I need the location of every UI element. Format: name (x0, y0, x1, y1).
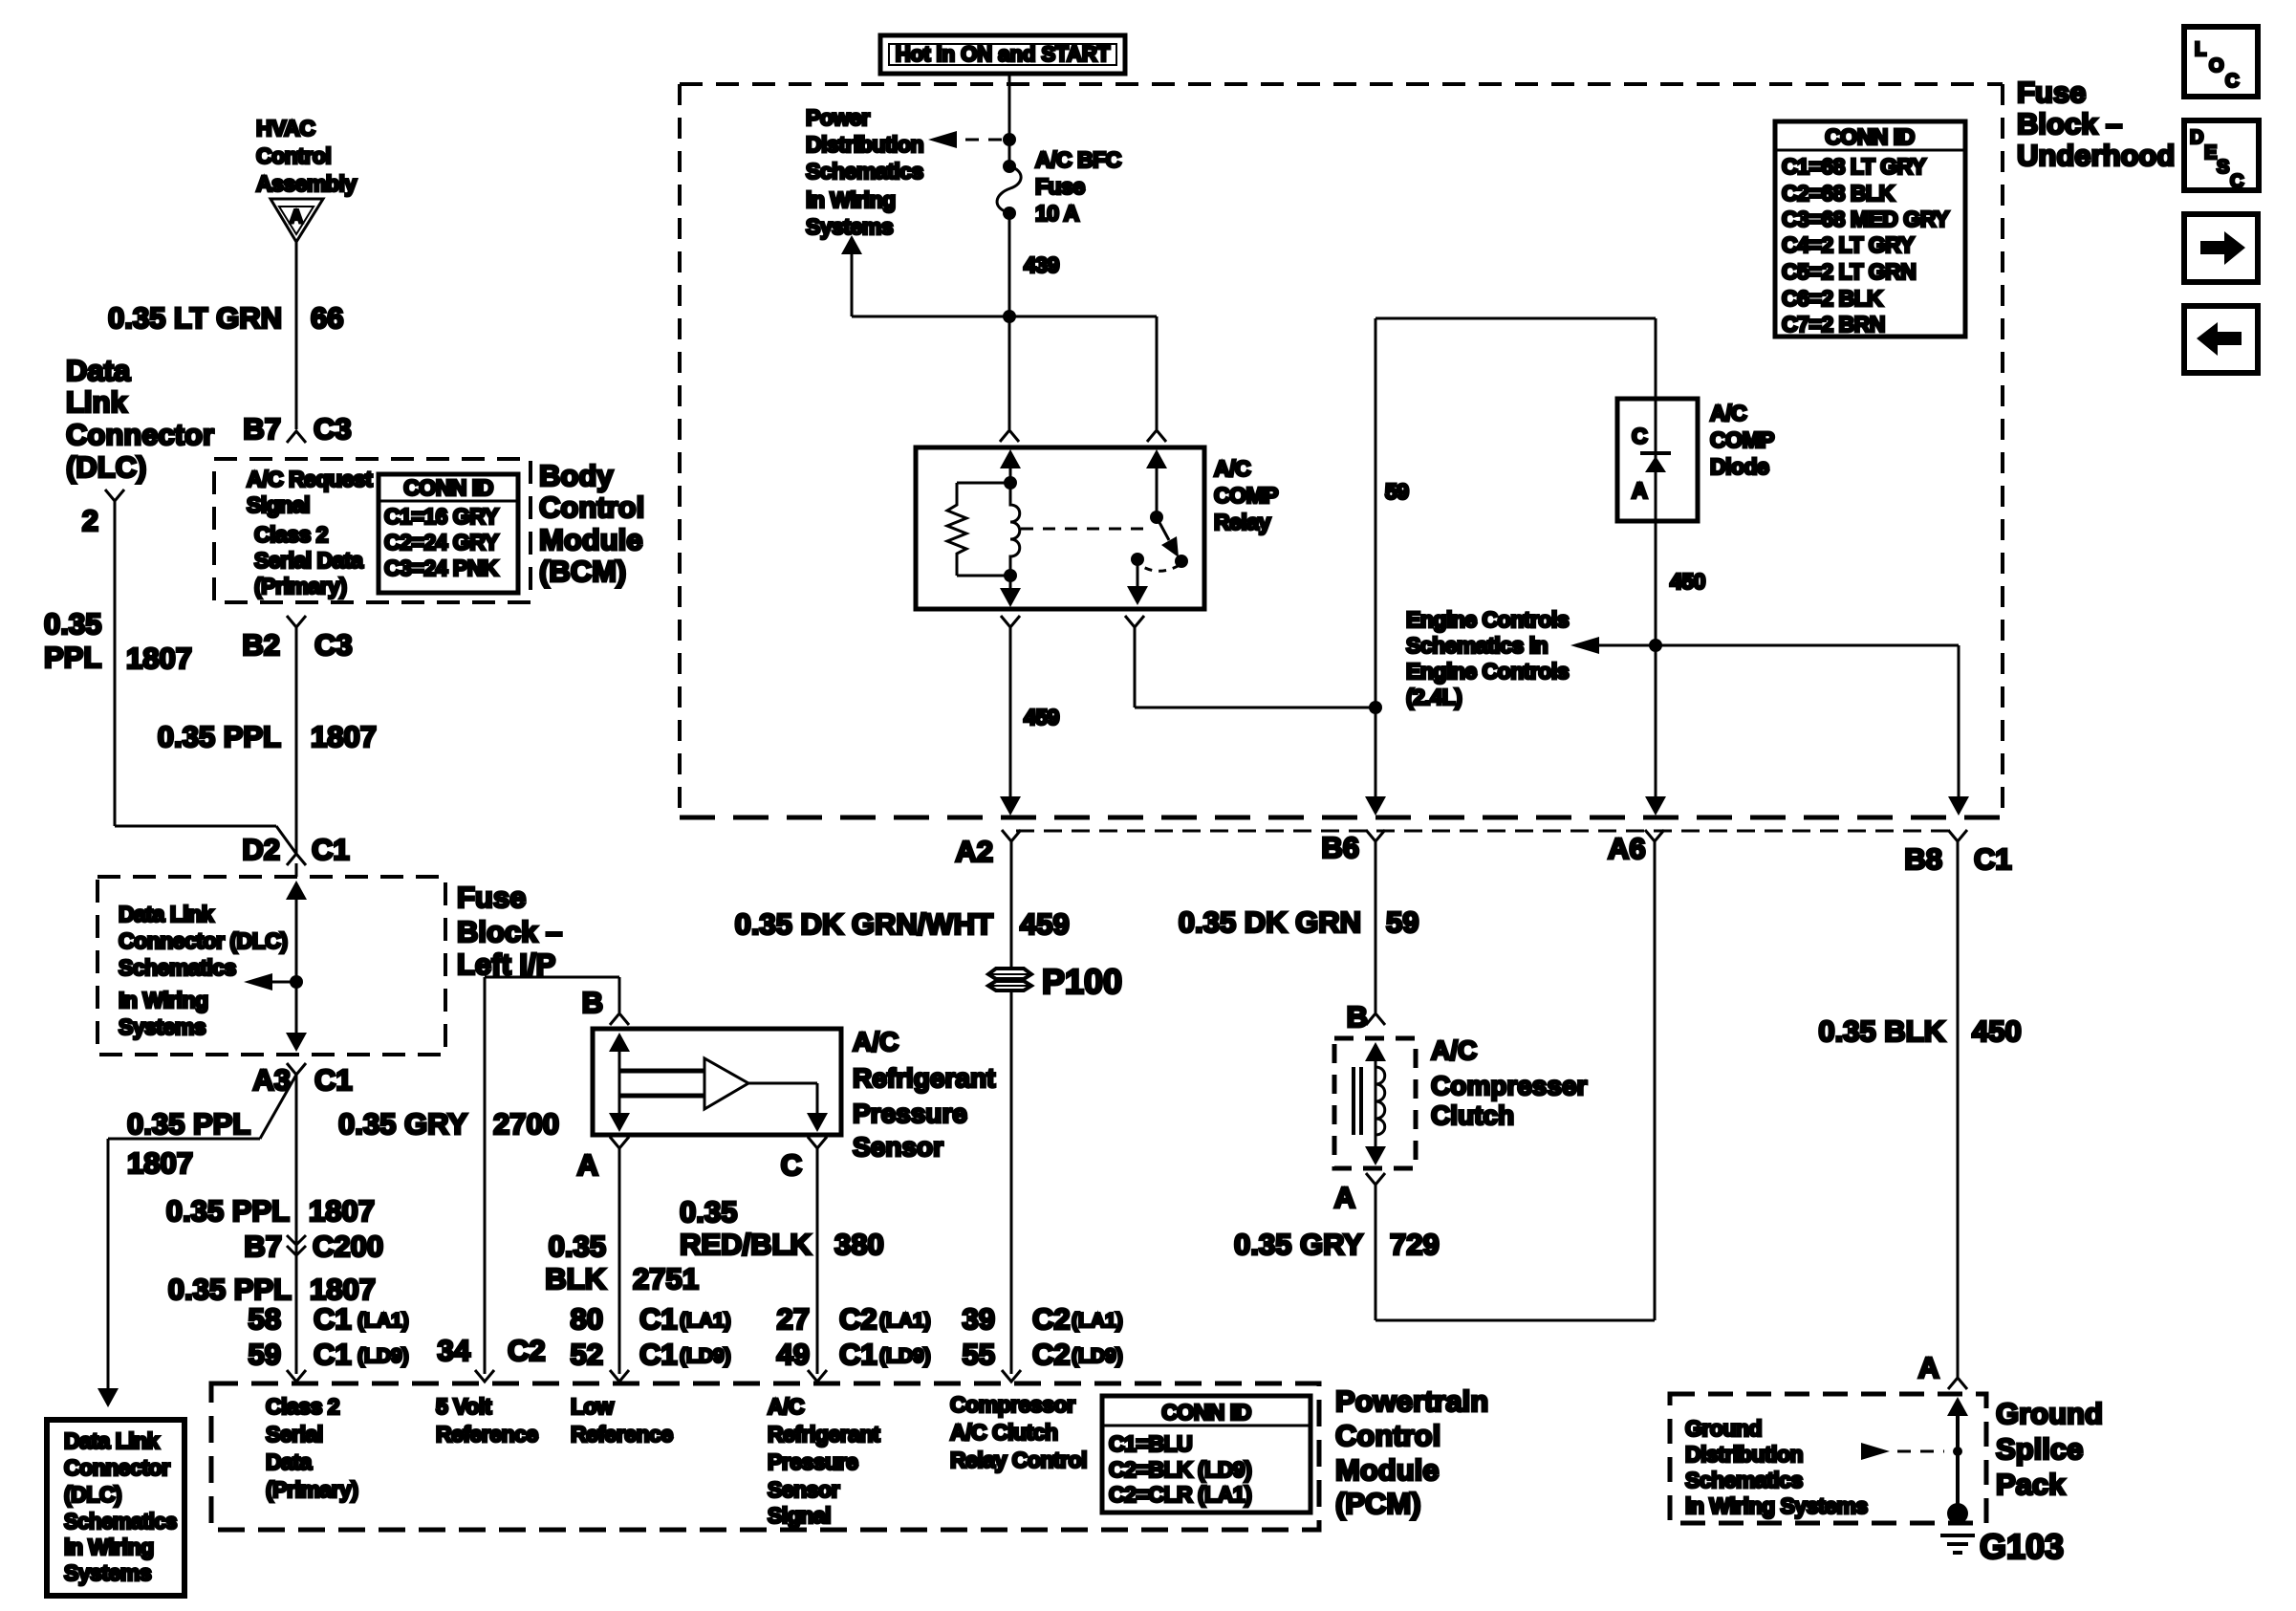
svg-text:0.35 BLK: 0.35 BLK (1818, 1014, 1945, 1048)
svg-text:COMP: COMP (1710, 427, 1774, 452)
svg-text:C7=2 BRN: C7=2 BRN (1782, 312, 1885, 337)
svg-text:B2: B2 (242, 628, 280, 662)
svg-text:C: C (781, 1148, 802, 1182)
CONN ID table (BCM) (379, 474, 518, 593)
svg-text:C2=CLR (LA1): C2=CLR (LA1) (1109, 1482, 1251, 1507)
connector C below sensor (808, 1137, 827, 1148)
svg-text:2751: 2751 (633, 1262, 699, 1295)
svg-text:0.35 PPL: 0.35 PPL (158, 720, 281, 753)
svg-text:1807: 1807 (310, 1273, 376, 1306)
svg-text:1807: 1807 (127, 1146, 193, 1180)
connector B2/C3 (287, 616, 306, 627)
svg-text:C2: C2 (1032, 1302, 1071, 1336)
svg-text:Refrigerant: Refrigerant (853, 1063, 995, 1093)
svg-text:A2: A2 (955, 835, 993, 868)
svg-text:Serial: Serial (266, 1422, 323, 1447)
svg-text:A6: A6 (1608, 832, 1646, 865)
wire inside splice box (1947, 1397, 1968, 1416)
svg-text:450: 450 (1972, 1014, 2022, 1048)
svg-text:Compresser: Compresser (1431, 1071, 1588, 1100)
svg-text:59: 59 (1386, 905, 1419, 939)
svg-text:(DLC): (DLC) (64, 1482, 121, 1507)
svg-text:Class 2: Class 2 (266, 1394, 339, 1419)
svg-text:66: 66 (311, 301, 343, 335)
svg-text:Pressure: Pressure (768, 1449, 857, 1474)
svg-text:Control: Control (539, 490, 644, 524)
svg-text:C6=2 BLK: C6=2 BLK (1782, 286, 1883, 311)
svg-text:Engine Controls: Engine Controls (1406, 607, 1569, 632)
svg-text:Fuse: Fuse (1035, 174, 1085, 199)
wire to B8 (1958, 645, 1960, 809)
arrow inside DLC box (271, 981, 296, 984)
wire 59 (1375, 318, 1377, 809)
svg-text:0.35: 0.35 (680, 1195, 737, 1229)
svg-text:A/C: A/C (768, 1394, 804, 1419)
svg-text:0.35 PPL: 0.35 PPL (127, 1107, 250, 1141)
svg-text:B7: B7 (243, 412, 281, 446)
svg-text:1807: 1807 (311, 720, 377, 753)
svg-text:COMP: COMP (1214, 483, 1278, 508)
svg-text:Hot in ON and START: Hot in ON and START (896, 42, 1111, 66)
fuse F A/C BFC 10A (1003, 160, 1016, 173)
svg-text:A/C BFC: A/C BFC (1035, 147, 1121, 172)
svg-text:C2=68 BLK: C2=68 BLK (1782, 181, 1895, 206)
svg-text:C3=24 PNK: C3=24 PNK (384, 555, 499, 580)
icon LOC box (2184, 27, 2258, 97)
svg-text:E: E (2204, 142, 2217, 163)
svg-text:HVAC: HVAC (256, 116, 314, 141)
svg-text:C1: C1 (314, 1338, 352, 1371)
svg-text:Connector: Connector (64, 1455, 170, 1480)
svg-text:A: A (1918, 1351, 1939, 1384)
sensor U A/C Refrigerant Pressure Sensor (593, 1029, 841, 1135)
connector A3/C1 (287, 1063, 306, 1075)
svg-text:59: 59 (1385, 479, 1409, 504)
svg-text:(Primary): (Primary) (254, 574, 346, 599)
svg-text:55: 55 (963, 1338, 995, 1371)
svg-text:Assembly: Assembly (256, 171, 357, 196)
svg-text:A: A (1334, 1181, 1355, 1214)
boundary thin dashed line (1016, 830, 1948, 833)
svg-text:Schematics: Schematics (64, 1509, 177, 1534)
svg-text:Distribution: Distribution (1685, 1442, 1803, 1467)
relay switch common pin (1146, 449, 1167, 468)
svg-text:in Wiring: in Wiring (806, 187, 896, 212)
svg-text:C200: C200 (313, 1230, 383, 1263)
node DLC schematics solid box (47, 1420, 184, 1596)
clutch L A/C Compresser Clutch dashed box (1334, 1038, 1416, 1168)
svg-text:Compressor: Compressor (950, 1392, 1075, 1417)
relay K A/C COMP Relay box (916, 447, 1204, 609)
svg-text:Relay: Relay (1214, 510, 1271, 534)
svg-text:P100: P100 (1042, 962, 1122, 1001)
svg-text:RED/BLK: RED/BLK (680, 1228, 812, 1261)
svg-text:Ground: Ground (1996, 1397, 2103, 1430)
svg-text:B8: B8 (1904, 842, 1942, 876)
svg-text:B7: B7 (244, 1230, 282, 1263)
svg-text:Sensor: Sensor (853, 1132, 943, 1162)
svg-text:C4=2 LT GRY: C4=2 LT GRY (1782, 232, 1914, 257)
svg-text:Fuse: Fuse (2017, 76, 2086, 109)
svg-text:CONN ID: CONN ID (403, 475, 493, 500)
relay coil-switch link dashed (1021, 528, 1147, 531)
svg-text:Schematics: Schematics (119, 955, 236, 980)
icon DESC box (2184, 120, 2259, 190)
svg-text:Data: Data (266, 1449, 313, 1474)
Fuse Block - Underhood dashed box (680, 82, 2003, 86)
svg-text:B: B (1347, 1000, 1368, 1034)
diode D A/C COMP Diode (1617, 399, 1698, 521)
svg-text:0.35 LT GRN: 0.35 LT GRN (108, 301, 282, 335)
svg-text:439: 439 (1024, 252, 1059, 277)
svg-text:34: 34 (438, 1334, 471, 1367)
svg-text:Module: Module (539, 523, 643, 556)
op-amp triangle (704, 1058, 748, 1109)
svg-text:A3: A3 (252, 1063, 291, 1097)
svg-text:PPL: PPL (44, 641, 101, 674)
svg-text:C2: C2 (1032, 1338, 1071, 1371)
svg-text:Power: Power (806, 105, 870, 130)
svg-text:Systems: Systems (64, 1560, 151, 1585)
relay pin outputs (1001, 616, 1020, 627)
wire 450 (1655, 521, 1657, 809)
resistor in relay (957, 482, 1010, 485)
svg-text:Data Link: Data Link (119, 902, 214, 926)
wire DLC pin 2 (114, 501, 117, 826)
svg-text:Clutch: Clutch (1431, 1100, 1514, 1130)
svg-text:49: 49 (777, 1338, 810, 1371)
spine continues (295, 1075, 298, 1374)
svg-text:Body: Body (539, 459, 614, 492)
connector B6 (1366, 830, 1385, 841)
svg-text:39: 39 (963, 1302, 995, 1336)
svg-text:380: 380 (834, 1228, 884, 1261)
svg-text:Schematics: Schematics (806, 159, 923, 184)
wire 1807 spine (295, 627, 298, 854)
svg-text:G103: G103 (1980, 1527, 2064, 1566)
svg-text:Control: Control (256, 143, 331, 168)
svg-text:Relay Control: Relay Control (950, 1448, 1087, 1472)
svg-text:Class 2: Class 2 (254, 522, 328, 547)
svg-text:Fuse: Fuse (457, 881, 526, 914)
svg-text:Systems: Systems (806, 214, 893, 239)
svg-text:Data: Data (66, 354, 131, 387)
svg-text:L: L (2195, 39, 2206, 60)
svg-text:D: D (2190, 127, 2203, 148)
CONN ID table (PCM) (1102, 1396, 1310, 1513)
svg-text:729: 729 (1390, 1228, 1440, 1261)
power distribution dashed arrow (965, 139, 1002, 142)
svg-text:A/C Clutch: A/C Clutch (950, 1420, 1058, 1445)
svg-text:Ground: Ground (1685, 1416, 1762, 1441)
svg-text:A: A (290, 207, 303, 228)
wire 459 inside box (1009, 627, 1012, 809)
ground G103 (1940, 1534, 1975, 1537)
svg-text:Splice: Splice (1996, 1432, 2083, 1466)
svg-text:0.35 GRY: 0.35 GRY (1234, 1228, 1363, 1261)
module BCM dashed box (214, 459, 531, 602)
svg-text:C1: C1 (314, 1063, 353, 1097)
svg-text:(LD9): (LD9) (1072, 1345, 1123, 1367)
engine controls arrow wire (1579, 644, 1959, 647)
svg-text:459: 459 (1024, 705, 1059, 729)
svg-text:(Primary): (Primary) (266, 1477, 357, 1502)
svg-text:C1=16 GRY: C1=16 GRY (384, 504, 498, 529)
clutch coil (1375, 1067, 1385, 1135)
svg-text:Block –: Block – (2017, 107, 2122, 141)
svg-text:Schematics in: Schematics in (1406, 633, 1548, 658)
wire 66 (295, 242, 298, 429)
svg-text:0.35: 0.35 (44, 607, 101, 641)
svg-text:O: O (2209, 55, 2224, 76)
svg-text:Pack: Pack (1996, 1468, 2066, 1501)
CONN ID table (Fuse Block Underhood) (1775, 121, 1965, 337)
svg-text:Signal: Signal (768, 1503, 831, 1528)
svg-text:10 A: 10 A (1035, 201, 1079, 226)
svg-text:1807: 1807 (126, 642, 192, 675)
svg-text:Pressure: Pressure (853, 1099, 967, 1128)
svg-text:Underhood: Underhood (2017, 139, 2175, 172)
svg-text:A: A (577, 1148, 598, 1182)
wire top link (1375, 317, 1656, 320)
svg-text:C2=BLK (LD9): C2=BLK (LD9) (1109, 1457, 1251, 1482)
svg-text:Reference: Reference (436, 1422, 538, 1447)
svg-text:0.35 DK GRN/WHT: 0.35 DK GRN/WHT (735, 907, 993, 941)
connector A below clutch (1366, 1173, 1385, 1185)
svg-text:C1: C1 (639, 1338, 678, 1371)
relay coil (1010, 483, 1020, 576)
svg-text:C1: C1 (312, 833, 350, 866)
ground distribution dashed arrow (1861, 1443, 1890, 1460)
svg-text:80: 80 (571, 1302, 603, 1336)
svg-text:A/C: A/C (853, 1027, 899, 1056)
svg-text:459: 459 (1020, 907, 1070, 941)
svg-text:52: 52 (571, 1338, 603, 1371)
svg-text:Serial Data: Serial Data (254, 548, 363, 573)
svg-text:C1: C1 (314, 1302, 352, 1336)
spine through DLC box (286, 881, 307, 900)
svg-text:D2: D2 (242, 833, 280, 866)
svg-text:C1: C1 (839, 1338, 877, 1371)
svg-text:5 Volt: 5 Volt (436, 1394, 492, 1419)
svg-text:Schematics: Schematics (1685, 1468, 1803, 1492)
connector B7/C3 (287, 431, 306, 443)
svg-text:C1=BLU: C1=BLU (1109, 1431, 1192, 1456)
svg-text:2: 2 (82, 504, 98, 537)
svg-text:C1: C1 (1974, 842, 2012, 876)
svg-text:0.35 PPL: 0.35 PPL (168, 1273, 292, 1306)
svg-text:C: C (1632, 424, 1647, 448)
svg-text:(LA1): (LA1) (879, 1310, 931, 1332)
svg-text:CONN ID: CONN ID (1825, 124, 1915, 149)
svg-text:C2: C2 (839, 1302, 877, 1336)
svg-text:(LA1): (LA1) (680, 1310, 731, 1332)
connector A2 (1002, 830, 1021, 841)
svg-text:(DLC): (DLC) (66, 450, 146, 484)
svg-text:(LA1): (LA1) (357, 1310, 409, 1332)
svg-text:Refrigerant: Refrigerant (768, 1422, 880, 1447)
svg-text:C2: C2 (508, 1334, 546, 1367)
svg-text:C: C (2230, 171, 2243, 192)
svg-text:(BCM): (BCM) (539, 555, 626, 588)
svg-text:0.35 GRY: 0.35 GRY (338, 1107, 467, 1141)
wire loop to A6 (1375, 1319, 1655, 1322)
svg-text:Signal: Signal (247, 492, 310, 517)
node Hot in ON and START (880, 35, 1125, 74)
connector D2/C1 (276, 826, 296, 854)
node DLC schematics reference dashed box (97, 877, 445, 1055)
svg-text:Reference: Reference (571, 1422, 673, 1447)
svg-text:C3: C3 (314, 628, 353, 662)
wire 2700 (484, 977, 487, 1374)
riser arrow to power distribution (851, 254, 854, 316)
svg-text:A/C: A/C (1710, 401, 1746, 425)
svg-text:Link: Link (66, 385, 127, 419)
svg-text:CONN ID: CONN ID (1161, 1400, 1251, 1425)
svg-text:2700: 2700 (493, 1107, 559, 1141)
wire from switch to 59 junction (1134, 627, 1137, 708)
svg-text:Engine Controls: Engine Controls (1406, 659, 1569, 684)
relay switch blade (1157, 517, 1169, 540)
svg-text:450: 450 (1670, 569, 1705, 594)
svg-text:in Wiring: in Wiring (64, 1535, 154, 1559)
connector P100 (988, 969, 1031, 979)
connector B7/C200 double chevron (287, 1235, 306, 1245)
svg-text:Control: Control (1335, 1419, 1440, 1452)
svg-text:C2=24 GRY: C2=24 GRY (384, 530, 498, 555)
svg-text:27: 27 (777, 1302, 810, 1336)
node Ground Splice Pack dashed box (1670, 1394, 1986, 1523)
svg-text:BLK: BLK (545, 1262, 606, 1295)
svg-text:C3: C3 (314, 412, 352, 446)
svg-text:B: B (582, 986, 603, 1019)
connector A6 (1645, 830, 1664, 841)
module PCM dashed box (211, 1383, 1319, 1530)
svg-text:In Wiring: In Wiring (119, 988, 208, 1012)
svg-text:(2.4L): (2.4L) (1406, 685, 1462, 709)
svg-text:C: C (2225, 71, 2239, 92)
svg-text:B6: B6 (1321, 831, 1359, 864)
svg-text:Sensor: Sensor (768, 1477, 840, 1502)
relay coil pin 1 (1000, 449, 1021, 468)
connector A below sensor (610, 1137, 629, 1148)
svg-text:(LD9): (LD9) (680, 1345, 731, 1367)
svg-text:Distribution: Distribution (806, 132, 923, 157)
wire 439 (1008, 213, 1011, 316)
wire horizontal junction (852, 316, 1157, 318)
svg-text:Systems: Systems (119, 1014, 206, 1039)
icon arrow right box (2184, 214, 2258, 282)
wire 439 feed (1008, 74, 1011, 166)
svg-text:(LD9): (LD9) (357, 1345, 409, 1367)
svg-text:A: A (1632, 478, 1647, 503)
svg-text:A/C: A/C (1214, 456, 1250, 481)
svg-text:58: 58 (249, 1302, 281, 1336)
svg-text:(LD9): (LD9) (879, 1345, 931, 1367)
svg-text:0.35 DK GRN: 0.35 DK GRN (1179, 905, 1361, 939)
svg-text:C5=2 LT GRN: C5=2 LT GRN (1782, 259, 1916, 284)
svg-text:C1: C1 (639, 1302, 678, 1336)
svg-text:Diode: Diode (1710, 454, 1768, 479)
connector B8/C1 (1948, 830, 1967, 841)
svg-text:0.35 PPL: 0.35 PPL (166, 1194, 290, 1228)
svg-text:A/C Request: A/C Request (247, 467, 373, 491)
svg-text:C1=68 LT GRY: C1=68 LT GRY (1782, 154, 1926, 179)
svg-text:A/C: A/C (1431, 1035, 1477, 1065)
svg-text:S: S (2217, 157, 2229, 178)
svg-text:59: 59 (249, 1338, 281, 1371)
svg-text:Low: Low (571, 1394, 614, 1419)
svg-text:Connector: Connector (66, 418, 214, 451)
svg-text:Powertrain: Powertrain (1335, 1384, 1488, 1418)
svg-text:1807: 1807 (309, 1194, 375, 1228)
wire 1807 branch to DLC bottom (260, 1075, 296, 1139)
svg-text:C3=68 MED GRY: C3=68 MED GRY (1782, 207, 1949, 231)
icon arrow left box (2184, 306, 2258, 373)
svg-text:Block –: Block – (457, 915, 562, 948)
svg-text:Data Link: Data Link (64, 1428, 160, 1453)
svg-text:(LA1): (LA1) (1072, 1310, 1123, 1332)
svg-text:Connector (DLC): Connector (DLC) (119, 928, 287, 953)
svg-text:in Wiring Systems: in Wiring Systems (1685, 1493, 1868, 1518)
svg-text:0.35: 0.35 (549, 1230, 606, 1263)
svg-text:(PCM): (PCM) (1335, 1487, 1421, 1520)
svg-text:Module: Module (1335, 1453, 1440, 1487)
relay switch NO contact (1175, 555, 1188, 568)
